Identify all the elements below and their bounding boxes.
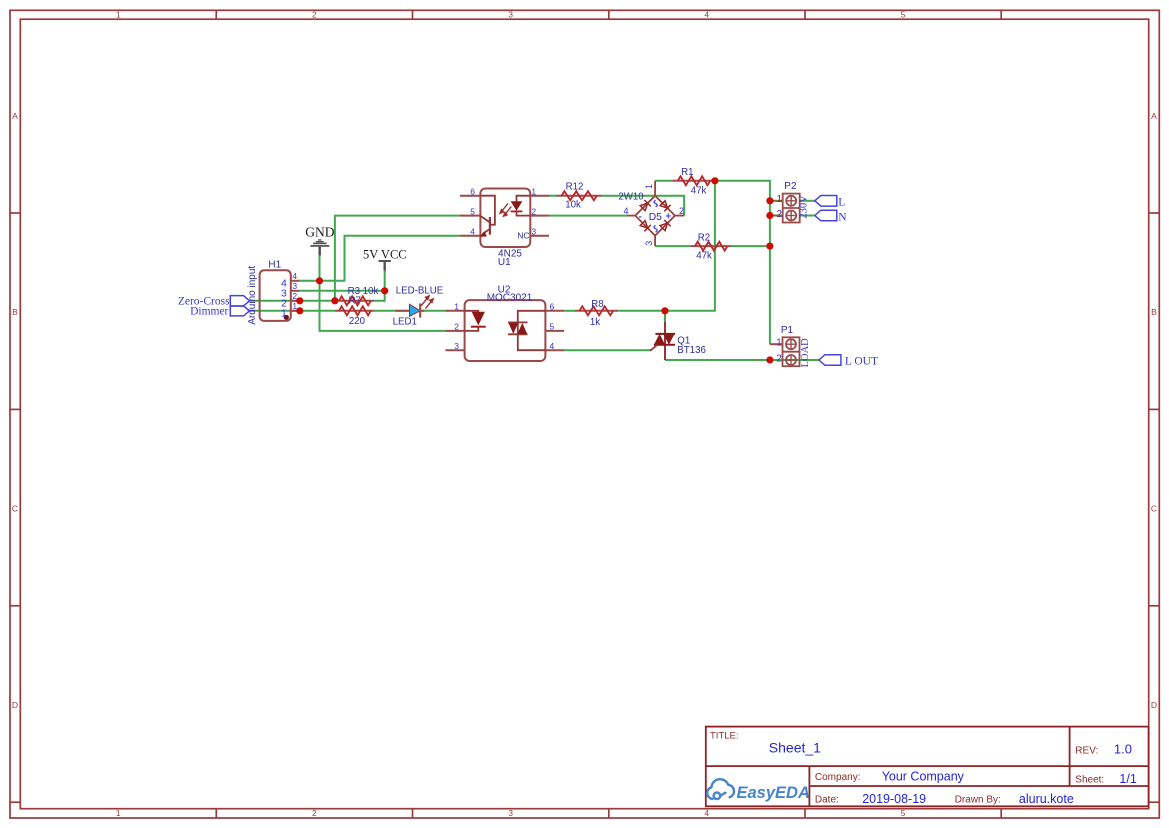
svg-text:GND: GND xyxy=(305,224,334,239)
wire R12 to bridge pin2 xyxy=(601,196,684,216)
svg-text:2: 2 xyxy=(776,209,782,220)
svg-text:R7: R7 xyxy=(349,295,361,306)
wire U2 pin6 to R8 xyxy=(564,310,575,312)
node GND pin4 junction xyxy=(316,277,323,284)
svg-text:3: 3 xyxy=(454,341,459,351)
svg-text:1: 1 xyxy=(116,808,121,818)
svg-text:D: D xyxy=(12,700,18,710)
wire LED1 cathode to U2 pin1 xyxy=(421,310,445,312)
H1 name Arduino input xyxy=(247,266,258,325)
node VCC pin3 junction xyxy=(381,287,388,294)
resistor R1 47k xyxy=(672,167,715,197)
svg-text:C: C xyxy=(1151,504,1157,514)
resistor R12 10k xyxy=(557,181,602,210)
svg-text:5: 5 xyxy=(901,10,906,20)
svg-text:-: - xyxy=(639,212,642,223)
resistor R8 1k xyxy=(575,299,618,328)
svg-text:P1: P1 xyxy=(781,325,794,336)
title block texts xyxy=(710,731,1104,806)
svg-text:47k: 47k xyxy=(696,250,712,261)
LED LED1 xyxy=(393,286,444,328)
H1 pin1 marker xyxy=(284,315,289,320)
wire R3 right to 5V VCC xyxy=(374,271,384,301)
node P1 pin2 junction xyxy=(766,356,773,363)
svg-text:4: 4 xyxy=(550,341,555,351)
svg-text:2: 2 xyxy=(531,206,536,216)
svg-text:2: 2 xyxy=(312,808,317,818)
net flag L xyxy=(815,196,846,209)
svg-text:R2: R2 xyxy=(698,232,710,243)
wire R7 to LED1 anode xyxy=(374,310,410,312)
wire GND to pin4 node and U2 pin2 xyxy=(320,255,446,331)
U1 internal LED xyxy=(511,196,531,216)
wire bridge pin1 to R1 xyxy=(655,180,672,182)
svg-text:D: D xyxy=(1151,700,1157,710)
svg-text:N: N xyxy=(838,211,847,223)
svg-text:Sheet:: Sheet: xyxy=(1075,775,1104,786)
svg-text:R8: R8 xyxy=(591,299,603,310)
svg-text:LED1: LED1 xyxy=(393,316,417,327)
CIRCUIT xyxy=(178,167,878,368)
svg-text:aluru.kote: aluru.kote xyxy=(1019,792,1074,806)
wire U2 pin4 to Q1 gate xyxy=(564,349,651,351)
resistor R3 10k xyxy=(335,286,379,307)
svg-text:3: 3 xyxy=(292,281,297,291)
svg-text:BT136: BT136 xyxy=(677,345,706,356)
EasyEDA logo xyxy=(707,779,810,802)
wire Q1 bottom to P1 pin2 to L OUT xyxy=(665,359,819,361)
D5 diode top-left xyxy=(640,200,651,211)
svg-text:2019-08-19: 2019-08-19 xyxy=(862,792,926,806)
wire H1 pin4 to U1 pin4 xyxy=(300,236,460,281)
svg-text:Your Company: Your Company xyxy=(882,770,965,784)
node H1 pin1 junction xyxy=(296,307,303,314)
svg-text:A: A xyxy=(12,111,18,121)
power flag 5V VCC xyxy=(363,248,407,271)
svg-text:6: 6 xyxy=(550,302,555,312)
U1 emission arrows xyxy=(500,204,511,217)
title block xyxy=(706,727,1149,807)
svg-text:Drawn By:: Drawn By: xyxy=(955,794,1001,805)
net flag Dimmer xyxy=(190,306,249,318)
resistor R7 220 xyxy=(335,306,375,327)
optocoupler U2 MOC3021 xyxy=(445,285,564,361)
net flag Zero-Cross xyxy=(178,295,250,307)
svg-text:Company:: Company: xyxy=(815,772,861,783)
svg-text:B: B xyxy=(12,307,18,317)
svg-text:220: 220 xyxy=(349,316,366,327)
D5 diode bottom-right xyxy=(660,220,671,231)
svg-text:Dimmer: Dimmer xyxy=(190,306,228,318)
svg-text:4: 4 xyxy=(470,226,475,236)
wire node pin2 up to U1 pin5 xyxy=(335,216,460,302)
triac Q1 BT136 xyxy=(650,322,706,360)
svg-text:1: 1 xyxy=(116,10,121,20)
svg-text:3: 3 xyxy=(508,808,513,818)
svg-text:C: C xyxy=(12,504,18,514)
svg-text:H1: H1 xyxy=(268,260,281,271)
svg-text:1: 1 xyxy=(454,302,459,312)
svg-text:1: 1 xyxy=(776,338,782,349)
svg-text:5: 5 xyxy=(550,322,555,332)
svg-text:4: 4 xyxy=(704,808,709,818)
node R2 junction xyxy=(766,243,773,250)
node R1 junction xyxy=(711,177,718,184)
svg-text:TITLE:: TITLE: xyxy=(710,731,739,742)
node H1 pin2 junction xyxy=(296,297,303,304)
svg-text:LED-BLUE: LED-BLUE xyxy=(396,286,444,297)
net flag L OUT xyxy=(819,355,878,368)
wire U1 pin2 to bridge pin4 xyxy=(549,215,627,217)
svg-text:D5: D5 xyxy=(649,212,662,223)
svg-text:4: 4 xyxy=(704,10,709,20)
svg-text:R1: R1 xyxy=(681,167,693,178)
wire H1 pin3 to VCC node xyxy=(300,290,385,292)
wire R1 node down to Q1 node and R8 xyxy=(618,181,715,311)
wire Q1 MT2 down xyxy=(664,311,666,323)
svg-text:LOAD: LOAD xyxy=(800,338,811,368)
svg-text:L OUT: L OUT xyxy=(845,356,878,368)
svg-text:1: 1 xyxy=(281,308,287,320)
svg-text:230V: 230V xyxy=(799,195,810,219)
svg-text:4: 4 xyxy=(292,271,297,281)
svg-text:+: + xyxy=(665,211,671,222)
H1 pin names xyxy=(281,278,287,320)
header H1 xyxy=(260,270,300,321)
node P2 pin1 junction xyxy=(766,197,773,204)
D5 diode top-right xyxy=(660,201,671,212)
U1 phototransistor xyxy=(480,196,495,235)
wire bridge pin3 to R2 xyxy=(655,245,690,247)
svg-text:2: 2 xyxy=(312,10,317,20)
wire U1 pin1 to R12 xyxy=(549,195,557,197)
svg-text:2: 2 xyxy=(776,353,782,364)
svg-text:5V VCC: 5V VCC xyxy=(363,248,407,262)
node Q1 junction xyxy=(661,307,668,314)
H1 label xyxy=(268,260,281,271)
U1 pin numbers xyxy=(470,186,536,236)
svg-text:2: 2 xyxy=(454,322,459,332)
svg-text:4: 4 xyxy=(623,206,628,216)
connector P1 xyxy=(770,325,811,368)
wire Dimmer to H1 pin1 to R7 xyxy=(250,310,335,312)
svg-text:1: 1 xyxy=(776,194,782,205)
svg-text:A: A xyxy=(1151,111,1157,121)
H1 pin numbers xyxy=(292,271,297,311)
svg-text:L: L xyxy=(838,197,845,209)
svg-text:6: 6 xyxy=(470,186,475,196)
D5 diode bottom-left xyxy=(640,221,651,232)
node pin2 vertical junction xyxy=(331,297,338,304)
svg-text:47k: 47k xyxy=(691,186,707,197)
U2 internal LED xyxy=(465,311,486,331)
svg-text:1k: 1k xyxy=(590,317,600,328)
net flag N xyxy=(815,210,848,223)
svg-text:2W10: 2W10 xyxy=(618,191,644,202)
optocoupler U1 4N25 xyxy=(460,186,549,267)
U2 pin numbers xyxy=(454,302,554,351)
svg-text:U1: U1 xyxy=(498,257,511,268)
svg-text:Sheet_1: Sheet_1 xyxy=(769,740,821,756)
svg-text:Arduino input: Arduino input xyxy=(247,266,258,325)
bridge rectifier D5 2W10 xyxy=(618,181,684,246)
svg-text:3: 3 xyxy=(644,241,654,246)
svg-text:MOC3021: MOC3021 xyxy=(487,292,533,303)
D5 pin numbers xyxy=(623,184,684,246)
D5 AC marks xyxy=(654,200,657,232)
wire Zero-Cross to H1 pin2 to R3 xyxy=(250,300,335,302)
svg-text:1: 1 xyxy=(531,186,536,196)
svg-text:2: 2 xyxy=(679,206,684,216)
ground symbol GND xyxy=(305,224,334,255)
svg-text:1: 1 xyxy=(644,184,654,189)
wire P2 pin2 to N flag xyxy=(800,215,815,217)
node P2 pin2 junction xyxy=(766,212,773,219)
svg-text:3: 3 xyxy=(531,226,536,236)
svg-text:B: B xyxy=(1151,307,1157,317)
svg-text:EasyEDA: EasyEDA xyxy=(737,784,810,802)
wire R2 to P2 column xyxy=(731,245,770,247)
wire R1 to P2 column down to P1 pin1 xyxy=(715,181,770,344)
svg-text:Date:: Date: xyxy=(815,794,839,805)
svg-text:NC: NC xyxy=(517,230,529,240)
svg-text:P2: P2 xyxy=(784,181,797,192)
svg-text:1/1: 1/1 xyxy=(1119,772,1136,786)
connector P2 xyxy=(770,181,810,223)
svg-text:3: 3 xyxy=(508,10,513,20)
wire P2 pin1 to L flag xyxy=(800,200,815,202)
svg-text:10k: 10k xyxy=(565,200,581,211)
svg-text:5: 5 xyxy=(470,206,475,216)
svg-text:REV:: REV: xyxy=(1075,746,1098,757)
resistor R2 47k xyxy=(691,232,732,261)
svg-text:1.0: 1.0 xyxy=(1114,742,1132,757)
U2 internal diac xyxy=(508,311,545,350)
svg-text:R12: R12 xyxy=(566,181,584,192)
svg-text:5: 5 xyxy=(901,808,906,818)
